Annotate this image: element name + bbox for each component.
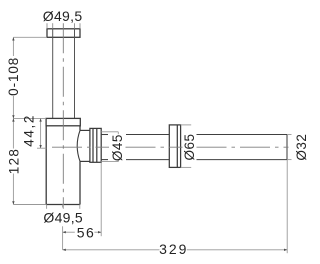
dim 329 line: [63, 249, 160, 251]
outlet intersection arc: [77, 130, 80, 161]
extension ticks above top flange: [47, 23, 80, 29]
horizontal centerline: [52, 146, 289, 148]
trap body: [46, 126, 80, 205]
dim 329 extension from pipe end: [286, 160, 288, 254]
top flange (Ø49,5 cap nut): [47, 29, 80, 38]
svg-text:Ø32: Ø32: [294, 134, 309, 161]
dim connector bottom: [13, 204, 46, 206]
dim connector middle: [13, 117, 46, 119]
dim 0-108 line: [12, 37, 14, 56]
dim Ø32 extensions: [287, 134, 292, 136]
dim 128 line: [12, 174, 14, 205]
centerline extension below body: [62, 205, 64, 208]
body top flange: [46, 118, 80, 125]
svg-text:56: 56: [77, 224, 96, 240]
dim connector top: [13, 36, 47, 38]
outlet boss: [80, 130, 90, 161]
vertical centerline: [62, 23, 64, 204]
dim 56 extension from rings: [100, 162, 102, 236]
svg-text:Ø45: Ø45: [110, 134, 125, 161]
dim 44,2 line: [40, 118, 42, 148]
svg-text:128: 128: [7, 148, 22, 174]
wall nut Ø65: [169, 125, 180, 167]
svg-text:0-108: 0-108: [6, 57, 21, 96]
svg-text:Ø65: Ø65: [182, 133, 197, 160]
dim Ø65 extensions: [181, 124, 192, 126]
dim Ø45 extensions: [101, 131, 118, 133]
tailpipe tube walls: [53, 29, 75, 119]
svg-text:Ø49,5: Ø49,5: [43, 210, 83, 226]
dimension arrowheads: [12, 37, 287, 251]
dimension lines: [13, 37, 291, 253]
body bottom extension stubs: [46, 205, 48, 209]
horizontal outlet pipe: [101, 135, 287, 160]
svg-text:44,2: 44,2: [22, 114, 37, 147]
svg-text:329: 329: [159, 241, 188, 257]
dim 56 line: [63, 231, 75, 233]
svg-text:Ø49,5: Ø49,5: [43, 8, 83, 24]
compression rings: [90, 128, 101, 162]
